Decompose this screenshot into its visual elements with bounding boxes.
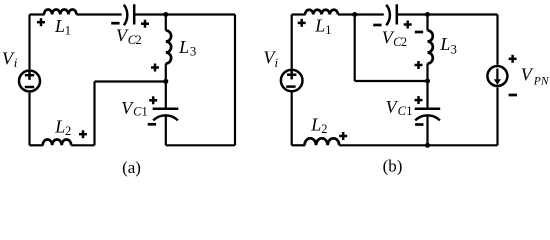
capacitor C2 (a) straight plate <box>133 4 136 24</box>
capacitor C1 (a) curved plate <box>153 115 178 120</box>
minus sign inside Vi (a) <box>25 86 34 89</box>
label L1 (a) <box>54 16 71 38</box>
capacitor C2 (b) straight plate <box>396 4 399 24</box>
inductor L1 (b) coil <box>305 10 338 15</box>
wire left rail lower (a) <box>28 93 30 146</box>
svg-text:L: L <box>178 37 189 57</box>
plus sign of C2 (a) <box>141 20 149 28</box>
minus sign of C1 (b) <box>415 123 423 126</box>
svg-text:1: 1 <box>406 104 412 118</box>
arrow inside VPN source (b) <box>494 69 501 86</box>
svg-text:L: L <box>54 16 65 36</box>
plus sign of C1 (b) <box>415 96 423 104</box>
wire riser from bottom rail to middle wire (a) <box>93 82 95 146</box>
caption (b) <box>383 157 403 176</box>
wire right rail upper (b) <box>496 15 498 65</box>
wire right rail (a) <box>234 15 236 146</box>
wire top rail left segment (a) <box>30 13 45 15</box>
wire bottom rail right segment (b) <box>339 144 497 146</box>
node dot top of L3 (a) <box>163 12 168 17</box>
plus sign of C1 (a) <box>149 96 157 104</box>
wire stub from top node to L3 (a) <box>165 15 167 31</box>
label Vi (b) <box>263 48 278 70</box>
capacitor C1 (b) straight plate <box>415 108 441 111</box>
wire middle horizontal (a) <box>95 80 166 82</box>
minus sign of VPN (b) <box>509 94 517 97</box>
wire bottom rail between L2 and riser (a) <box>71 144 94 146</box>
node dot between L1 and C2 (b) <box>352 12 357 17</box>
wire top rail right of C2 (b) <box>397 13 498 15</box>
node dot top of L3 (b) <box>425 12 430 17</box>
wire left rail upper (b) <box>291 15 293 69</box>
plus sign of VPN (b) <box>509 55 517 63</box>
wire right rail lower (b) <box>496 88 498 146</box>
plus sign of L2 (a) <box>79 130 87 138</box>
wire stub L3 bottom (b) <box>426 64 428 82</box>
wire bottom rail left segment (a) <box>30 144 44 146</box>
minus sign of C2 (a) <box>111 22 119 25</box>
label VC2 (b) <box>382 27 407 49</box>
inductor L2 (a) coil <box>43 140 71 146</box>
minus sign inside Vi (b) <box>286 85 295 88</box>
wire top rail between L1 and C2 (b) <box>338 13 384 15</box>
svg-text:(a): (a) <box>122 158 141 177</box>
svg-text:L: L <box>54 117 65 137</box>
svg-text:L: L <box>310 115 321 135</box>
svg-text:1: 1 <box>325 23 331 37</box>
svg-text:1: 1 <box>65 24 71 38</box>
label L3 (a) <box>178 37 196 59</box>
minus sign of C2 (b) <box>373 24 381 27</box>
svg-text:2: 2 <box>401 35 407 49</box>
capacitor C1 (b) curved plate <box>415 115 440 120</box>
wire top rail between L1 and C2 (a) <box>77 13 122 15</box>
capacitor C2 (a) curved plate <box>124 5 127 26</box>
svg-text:3: 3 <box>190 45 196 59</box>
plus sign of L3 (b) <box>415 61 423 69</box>
inductor L1 (a) coil <box>44 9 77 14</box>
label L3 (b) <box>439 34 456 56</box>
minus sign of L3 (b) <box>415 31 423 34</box>
wire C1 top stem (a) <box>165 81 167 107</box>
plus sign of L3 (a) <box>151 64 159 72</box>
svg-text:3: 3 <box>451 43 457 57</box>
minus sign of C1 (a) <box>148 123 156 126</box>
capacitor C1 (a) straight plate <box>153 108 179 111</box>
svg-text:L: L <box>314 15 325 35</box>
wire left rail upper (a) <box>28 15 30 70</box>
wire C1 top stem (b) <box>426 81 428 108</box>
label L2 (b) <box>310 115 327 136</box>
wire top rail right of C2 (a) <box>134 13 235 15</box>
node dot on bottom rail (b) <box>425 143 430 148</box>
svg-text:1: 1 <box>142 105 148 119</box>
inductor L3 (b) coil <box>428 31 433 64</box>
label L2 (a) <box>54 117 71 138</box>
wire middle horizontal (b) <box>355 80 428 82</box>
svg-text:2: 2 <box>321 122 327 136</box>
svg-text:(b): (b) <box>383 157 403 176</box>
wire vertical from top node down (b) <box>354 15 356 82</box>
svg-text:i: i <box>275 55 279 70</box>
node dot bottom of L3 (a) <box>163 79 168 84</box>
wire C1 bottom stem (b) <box>426 116 428 145</box>
wire bottom-right rail (a) <box>166 144 235 146</box>
svg-text:L: L <box>439 34 450 54</box>
wire stub from top node to L3 (b) <box>426 15 428 31</box>
plus sign of L1 (b) <box>298 19 306 27</box>
label VPN (b) <box>521 64 550 87</box>
plus sign of L2 (b) <box>339 132 347 140</box>
svg-text:2: 2 <box>135 33 141 47</box>
label VC1 (a) <box>121 98 147 119</box>
label VC2 (a) <box>116 25 142 47</box>
plus sign inside Vi (b) <box>287 70 296 79</box>
node dot bottom of L3 (b) <box>425 79 430 84</box>
caption (a) <box>122 158 141 177</box>
wire C1 bottom stem (a) <box>165 116 167 145</box>
plus sign inside Vi (a) <box>25 71 34 80</box>
svg-text:PN: PN <box>533 76 550 88</box>
svg-text:i: i <box>14 55 18 70</box>
plus sign of L1 (a) <box>37 18 45 26</box>
inductor L3 (a) coil <box>166 31 171 64</box>
voltage source Vi (a) circle <box>19 71 40 92</box>
label VC1 (b) <box>386 97 413 118</box>
voltage source Vi (b) circle <box>281 70 303 92</box>
capacitor C2 (b) curved plate <box>386 5 390 26</box>
label Vi (a) <box>2 48 18 70</box>
svg-text:2: 2 <box>65 124 71 138</box>
current source VPN (b) circle <box>487 66 507 86</box>
wire top rail left segment (b) <box>292 13 306 15</box>
label L1 (b) <box>314 15 331 37</box>
wire bottom rail left segment (b) <box>292 144 305 146</box>
plus sign of C2 (b) <box>404 21 412 29</box>
inductor L2 (b) coil <box>305 138 340 145</box>
wire left rail lower (b) <box>291 92 293 145</box>
wire stub L3 bottom (a) <box>165 64 167 82</box>
